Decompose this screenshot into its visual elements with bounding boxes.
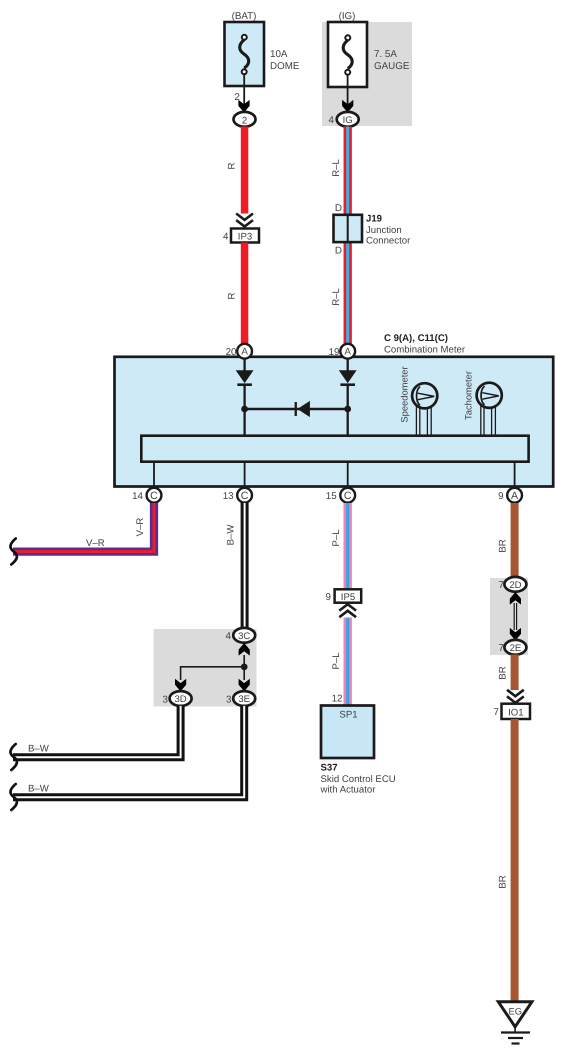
svg-text:EG: EG [509,1006,523,1017]
gray panel behind (IG) fuse [322,22,412,126]
svg-text:S37: S37 [321,763,338,774]
ECU S37 box [321,706,374,759]
arrow into connector IG [342,100,353,113]
wire P-L lower [344,618,352,706]
node junction 3C [241,664,248,671]
svg-text:Speedometer: Speedometer [399,366,410,422]
svg-text:IP5: IP5 [341,592,355,603]
combination meter box [115,357,554,487]
svg-text:A: A [241,347,248,358]
wire between 2D and 2E [514,603,516,630]
wire BR upper [511,503,519,578]
node junction left [241,406,248,413]
svg-text:B–W: B–W [28,744,50,755]
fuse F1 DOME box [225,22,265,86]
svg-text:R–L: R–L [331,288,342,306]
svg-text:C: C [344,490,352,502]
wire branch to 3D [181,667,245,680]
wire R upper segment [241,127,249,214]
connector oval 3C [233,628,255,643]
svg-text:7: 7 [494,707,499,718]
pin circle 9 A [507,488,522,503]
wire inside meter left [243,358,245,371]
svg-text:7. 5A: 7. 5A [374,49,397,60]
connector IO1 [502,704,531,719]
connector IP3 [231,229,259,243]
svg-text:BR: BR [498,539,509,552]
pin stub 9 [514,462,516,487]
connector oval 2E [504,640,526,655]
connector IP5 [335,589,362,602]
svg-text:B–W: B–W [28,784,50,795]
pin stub 13 [244,462,246,487]
connector oval IG [337,112,359,127]
wire V-R [13,503,154,552]
ground bar 3 [512,1042,520,1044]
diode D2 [339,370,357,386]
svg-text:BR: BR [498,875,509,888]
fuse F2 GAUGE box [328,22,367,87]
arrow into connector 2 [238,100,249,113]
svg-text:R: R [227,162,238,169]
arrow into 3D [175,679,186,692]
svg-text:V–R: V–R [135,518,146,537]
svg-text:3E: 3E [238,694,250,705]
wire B-W from 13 [241,503,249,629]
svg-text:IG: IG [343,115,353,126]
gray panel 2D/2E [490,578,528,655]
connector oval 3D [170,691,192,706]
svg-text:SP1: SP1 [339,710,357,721]
node junction right [344,406,351,413]
tachometer gauge [477,383,502,436]
internal bus bar [141,436,528,462]
svg-text:D: D [335,246,342,257]
svg-text:3: 3 [163,694,169,705]
svg-text:4: 4 [226,631,232,642]
diode D1 [236,370,254,386]
connector oval 3E [233,691,255,706]
svg-text:12: 12 [332,694,343,705]
svg-text:with Actuator: with Actuator [320,785,377,796]
arrow into 2D [510,592,521,605]
junction connector J19 [334,215,363,242]
svg-text:IO1: IO1 [508,707,523,718]
svg-text:2: 2 [242,115,247,126]
svg-text:9: 9 [498,491,503,502]
pin circle 19 A [340,344,355,359]
pin circle 13 C [237,488,252,503]
wire R lower segment [241,243,249,345]
arrow into 2E [510,628,521,641]
svg-text:15: 15 [326,491,337,502]
wire P-L upper [344,503,352,589]
svg-text:(BAT): (BAT) [232,11,257,22]
svg-text:R–L: R–L [331,159,342,177]
svg-text:4: 4 [329,115,335,126]
svg-text:J19: J19 [366,214,382,225]
diode D3 [295,401,310,417]
wire B-W from 3E [13,706,244,797]
svg-text:2D: 2D [509,580,521,591]
pin circle 14 C [147,488,162,503]
gray panel 3C/3D/3E [154,629,257,707]
svg-text:C: C [150,490,158,502]
svg-text:C: C [241,490,249,502]
svg-text:A: A [511,490,519,502]
svg-text:GAUGE: GAUGE [374,61,410,72]
svg-text:D: D [335,203,342,214]
wire below D1 [243,386,245,436]
svg-text:Skid Control ECU: Skid Control ECU [321,774,396,785]
svg-text:20: 20 [226,347,237,358]
wire BR lower [511,719,519,1001]
svg-text:B–W: B–W [226,524,237,546]
fuse F1 DOME element [240,35,249,75]
svg-text:R: R [227,292,238,299]
svg-text:2E: 2E [510,643,522,654]
wire R-L segment [344,127,352,345]
pin stub 14 [153,462,155,487]
ground bar 2 [508,1037,523,1039]
svg-text:19: 19 [329,347,340,358]
wire diode row [245,408,348,410]
svg-text:3C: 3C [238,631,250,642]
svg-text:Junction: Junction [366,225,402,236]
wire BR middle [511,655,519,691]
squiggle B-W 3D [10,744,16,770]
svg-text:9: 9 [326,592,331,603]
arrow into 3E [239,679,250,692]
wire below 3C [243,655,245,680]
svg-text:3D: 3D [175,694,187,705]
chevrons into IO1 [507,690,524,703]
svg-text:14: 14 [132,491,143,502]
svg-text:Combination Meter: Combination Meter [384,345,466,356]
wire below D2 [347,386,349,436]
pin stub 15 [347,462,349,487]
chevrons into IP3 [236,214,253,227]
svg-text:10A: 10A [270,49,288,60]
svg-text:4: 4 [223,232,229,243]
ground EG triangle [498,1002,532,1027]
svg-text:C 9(A), C11(C): C 9(A), C11(C) [384,333,448,344]
arrow into 3C [239,643,250,656]
connector oval 2D [504,577,526,592]
svg-text:(IG): (IG) [339,11,356,22]
pin circle 20 A [237,344,252,359]
ground stem [514,1027,516,1032]
svg-text:V–R: V–R [86,538,105,549]
svg-text:Tachometer: Tachometer [463,371,474,420]
wire B-W from 3D [13,706,181,757]
svg-text:Connector: Connector [366,236,411,247]
svg-text:P–L: P–L [331,529,342,547]
speedometer gauge [412,383,437,436]
ground bar 1 [501,1031,530,1033]
svg-text:3: 3 [226,694,232,705]
chevrons out of IP5 [339,604,356,617]
svg-text:13: 13 [223,491,234,502]
wire inside meter right [347,358,349,371]
wire fuse GAUGE lead [347,75,349,104]
svg-text:DOME: DOME [270,61,300,72]
connector oval 2 [234,112,256,127]
squiggle V-R [10,539,16,565]
squiggle B-W 3E [10,784,16,810]
svg-text:BR: BR [498,666,509,679]
fuse F2 GAUGE element [343,35,352,75]
wire fuse DOME lead [243,75,245,105]
svg-text:P–L: P–L [331,652,342,670]
svg-text:IP3: IP3 [238,232,252,243]
svg-text:A: A [344,347,351,358]
pin circle 15 C [340,488,355,503]
